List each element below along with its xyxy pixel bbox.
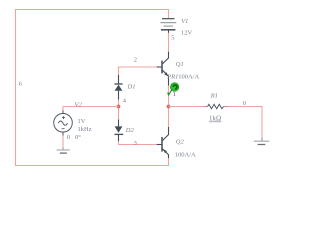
svg-text:0: 0 [243, 100, 246, 107]
svg-text:Q1: Q1 [176, 61, 184, 68]
ac source V2 [54, 111, 73, 136]
junction node 1 [167, 105, 171, 109]
svg-text:0: 0 [67, 134, 70, 141]
svg-text:2: 2 [134, 56, 137, 63]
resistor R1 [204, 104, 229, 108]
wire net 3 (D2 bottom to Q2 base) [119, 141, 157, 145]
svg-text:3: 3 [134, 140, 137, 147]
battery V1 [160, 19, 176, 33]
svg-text:1V: 1V [78, 118, 86, 125]
svg-text:D2: D2 [125, 127, 135, 134]
svg-text:100A/A: 100A/A [175, 151, 196, 158]
junction node 4 [117, 105, 121, 109]
wire V2 bottom to ground [62, 136, 64, 148]
value 1kOhm underlined [209, 115, 221, 123]
wire node 1 to R1 [169, 106, 204, 108]
svg-text:D1: D1 [127, 84, 136, 91]
wire R1 to ground (net 0) [228, 107, 262, 138]
wire V1 bottom to Q1 collector [168, 33, 170, 52]
svg-text:PR1: PR1 [166, 73, 178, 80]
svg-text:Q2: Q2 [176, 138, 185, 145]
ground below V2 [57, 147, 70, 153]
svg-text:V2: V2 [75, 102, 83, 109]
voltage probe PR1 [167, 83, 179, 96]
svg-text:5: 5 [171, 35, 174, 42]
transistor Q1 (NPN) [157, 52, 169, 86]
transistor Q2 (PNP) [157, 127, 169, 158]
ground right of R1 [254, 137, 269, 144]
svg-text:V1: V1 [181, 18, 188, 25]
svg-text:R1: R1 [210, 92, 218, 99]
diode D1 [114, 75, 122, 100]
wire net 2 (D1 top to Q1 base) [119, 67, 157, 75]
svg-text:100A/A: 100A/A [178, 73, 199, 80]
svg-text:1kHz: 1kHz [78, 126, 92, 133]
wire D1 bottom through node 4 to D2 top [118, 100, 120, 120]
wire output node 1 (Q1 emitter to junction to Q2 collector) [168, 86, 170, 127]
wire V2 to node 4 [63, 107, 119, 111]
svg-text:0°: 0° [75, 134, 81, 141]
diode D2 [115, 120, 124, 142]
wire net 6 outer loop (battery top, left rail, bottom rail to Q2 emitter) [16, 10, 169, 166]
svg-text:1: 1 [173, 92, 176, 98]
svg-text:12V: 12V [181, 29, 193, 36]
